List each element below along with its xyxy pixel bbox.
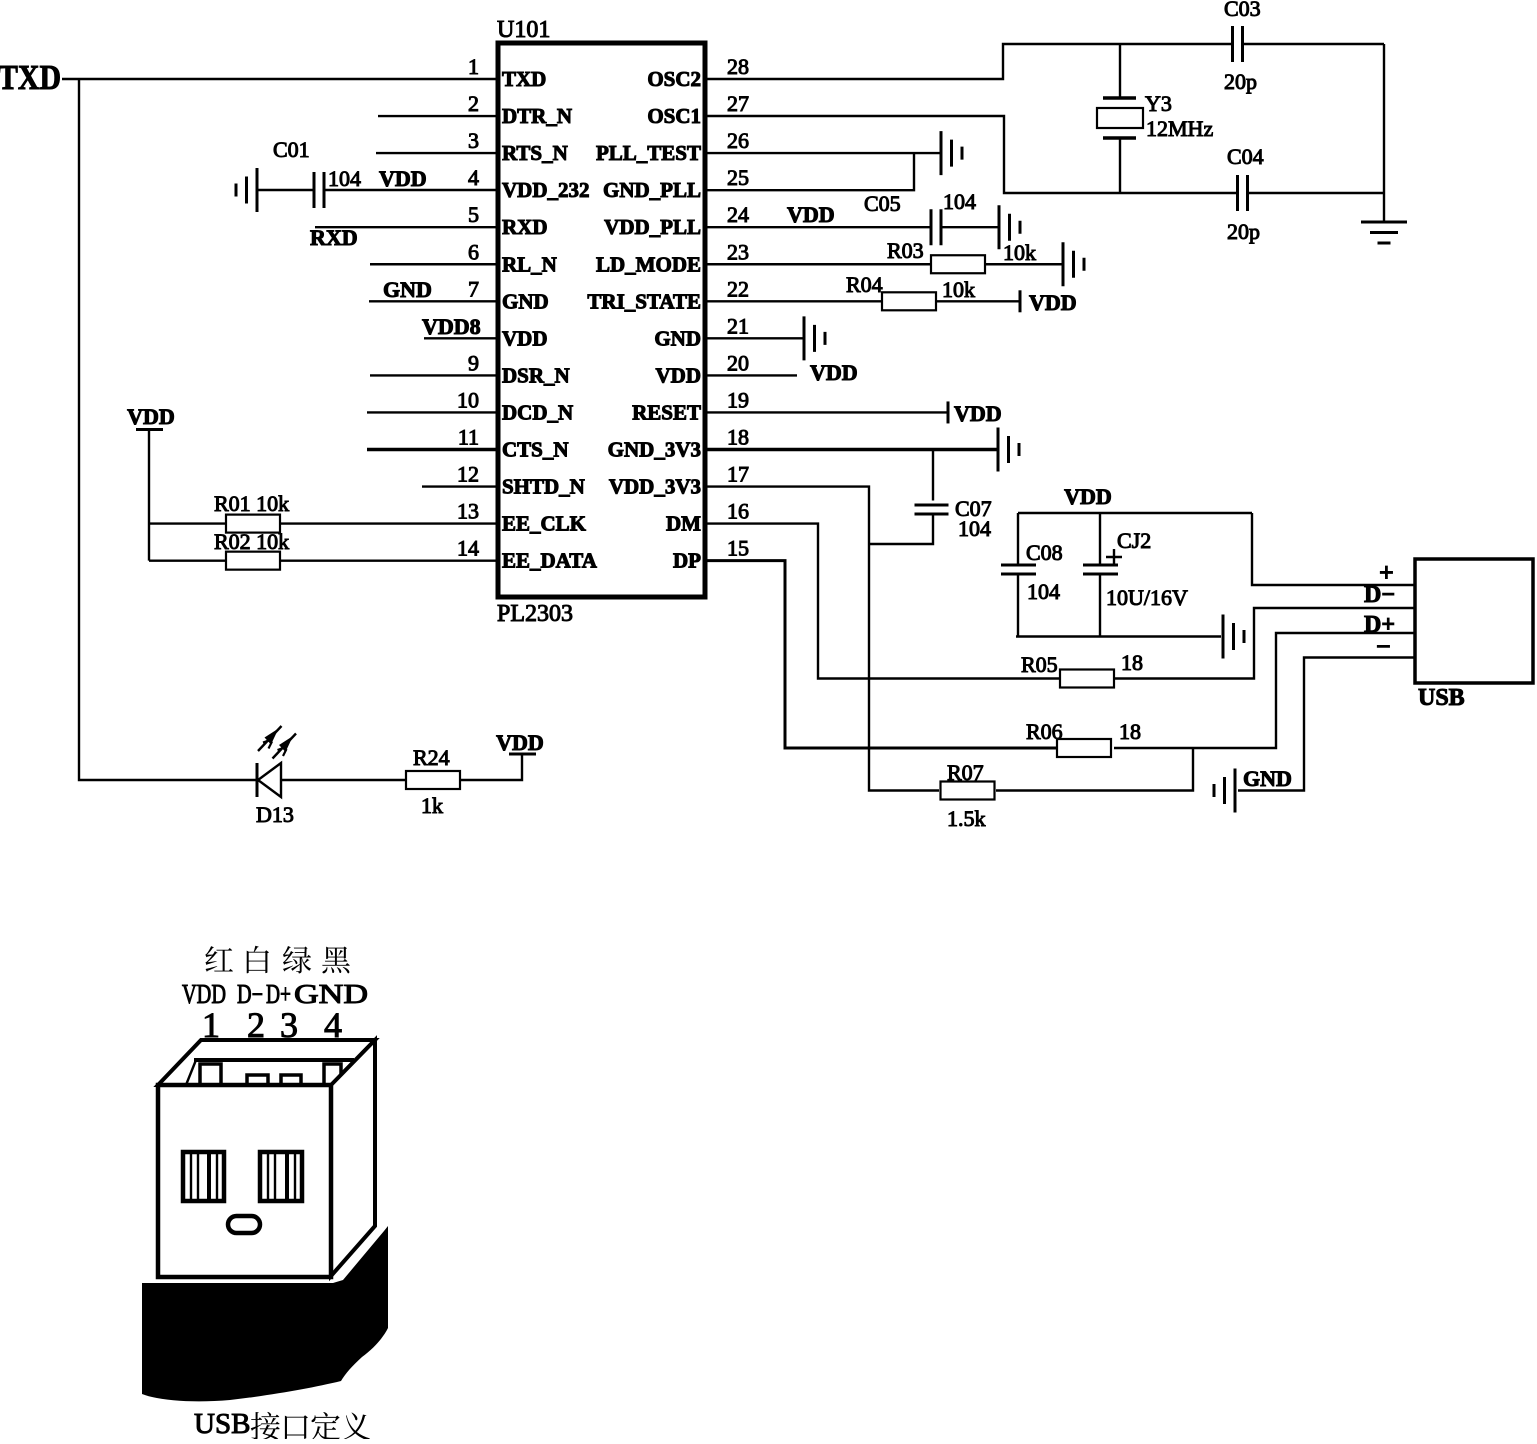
svg-text:DSR_N: DSR_N bbox=[502, 363, 570, 387]
svg-text:Y3: Y3 bbox=[1145, 91, 1172, 116]
LED D13 bbox=[256, 763, 259, 797]
wire pin 18 GND_3V3 to ground bbox=[705, 448, 998, 452]
svg-text:17: 17 bbox=[727, 462, 749, 487]
svg-text:SHTD_N: SHTD_N bbox=[502, 475, 585, 499]
svg-text:20: 20 bbox=[727, 350, 749, 375]
svg-text:104: 104 bbox=[958, 516, 991, 541]
svg-text:16: 16 bbox=[727, 499, 749, 524]
svg-text:10U/16V: 10U/16V bbox=[1106, 585, 1188, 610]
wire R04 to VDD bbox=[936, 300, 1020, 302]
svg-text:1k: 1k bbox=[421, 793, 443, 818]
wire pin 10 stub bbox=[367, 411, 498, 413]
USB pinout color caption red white green black bbox=[205, 946, 233, 972]
svg-text:U101: U101 bbox=[497, 17, 550, 43]
svg-text:GND_3V3: GND_3V3 bbox=[608, 438, 701, 462]
wire pin 19 RESET to VDD bbox=[705, 411, 948, 413]
USB plug contact 2 bbox=[247, 1075, 268, 1085]
wire C08 bottom bbox=[1017, 574, 1019, 637]
svg-text:RXD: RXD bbox=[310, 225, 358, 250]
wire pin 12 stub bbox=[422, 485, 498, 487]
wire R01 to pin 13 bbox=[280, 522, 498, 524]
wire CJ2 top bbox=[1099, 513, 1101, 565]
svg-text:OSC1: OSC1 bbox=[647, 104, 701, 128]
svg-text:R07: R07 bbox=[947, 760, 984, 785]
wire pin 5 stub bbox=[315, 226, 498, 228]
wire CJ2 bottom bbox=[1099, 574, 1101, 637]
svg-text:18: 18 bbox=[727, 425, 749, 450]
svg-text:DP: DP bbox=[673, 549, 701, 573]
svg-text:20p: 20p bbox=[1224, 69, 1257, 94]
resistor R06 bbox=[1057, 739, 1111, 757]
svg-text:RL_N: RL_N bbox=[502, 252, 557, 276]
wire bottom rail bbox=[1016, 635, 1221, 637]
wire pin 23 LD_MODE to R03 bbox=[705, 263, 931, 265]
svg-text:20p: 20p bbox=[1227, 219, 1260, 244]
svg-text:VDD: VDD bbox=[1029, 290, 1077, 315]
svg-text:CJ2: CJ2 bbox=[1117, 528, 1151, 553]
power VDD tick pin 19 bbox=[947, 401, 950, 423]
svg-text:C05: C05 bbox=[864, 191, 901, 216]
svg-text:TXD: TXD bbox=[0, 58, 61, 97]
svg-text:7: 7 bbox=[468, 276, 479, 301]
USB plug black body bbox=[142, 1226, 388, 1401]
svg-text:9: 9 bbox=[468, 350, 479, 375]
capacitor C04 bbox=[1238, 175, 1248, 211]
wire crystal right rail down bbox=[1383, 44, 1385, 222]
wire pin 8 stub bbox=[424, 337, 498, 339]
svg-text:18: 18 bbox=[1121, 650, 1143, 675]
svg-text:1.5k: 1.5k bbox=[947, 806, 986, 831]
wire VDD to R01 bbox=[149, 522, 226, 524]
svg-text:28: 28 bbox=[727, 54, 749, 79]
capacitor CJ2 polarity plus bbox=[1106, 549, 1122, 565]
wire pin 9 stub bbox=[370, 374, 498, 376]
ground C05 bbox=[999, 205, 1020, 249]
svg-text:R02 10k: R02 10k bbox=[214, 529, 289, 554]
svg-text:104: 104 bbox=[328, 166, 361, 191]
wire junction down to C07 bbox=[932, 450, 934, 501]
svg-text:26: 26 bbox=[727, 128, 749, 153]
LED D13 arrows bbox=[258, 726, 282, 751]
svg-text:VDD_PLL: VDD_PLL bbox=[604, 215, 701, 239]
wire pin 21 GND bbox=[705, 337, 804, 339]
svg-text:11: 11 bbox=[458, 425, 479, 450]
svg-text:C08: C08 bbox=[1026, 540, 1063, 565]
capacitor C05 bbox=[931, 209, 941, 245]
earth ground crystal bbox=[1361, 222, 1407, 243]
resistor R24 bbox=[406, 771, 460, 789]
svg-text:GND: GND bbox=[654, 326, 701, 350]
svg-text:1: 1 bbox=[468, 54, 479, 79]
svg-text:GND_PLL: GND_PLL bbox=[603, 178, 701, 202]
svg-text:18: 18 bbox=[1119, 719, 1141, 744]
svg-text:VDD8: VDD8 bbox=[422, 314, 481, 339]
svg-text:C04: C04 bbox=[1227, 144, 1264, 169]
wire R07 to DP net bbox=[996, 748, 1193, 791]
svg-text:USB: USB bbox=[194, 1408, 250, 1439]
wire pin 28 OSC2 to crystal top rail bbox=[705, 44, 1232, 79]
ground PLL_TEST bbox=[941, 131, 962, 175]
USB plug contact 3 bbox=[281, 1075, 301, 1085]
svg-text:25: 25 bbox=[727, 165, 749, 190]
wire C07 to VDD_3V3 net bbox=[869, 514, 933, 544]
capacitor C07 bbox=[915, 505, 949, 514]
svg-text:VDD_232: VDD_232 bbox=[502, 178, 590, 202]
wire pin 7 stub bbox=[369, 300, 498, 302]
svg-text:4: 4 bbox=[468, 165, 479, 190]
wire R03 to ground bbox=[985, 263, 1063, 265]
svg-text:VDD: VDD bbox=[502, 326, 548, 350]
resistor R01 bbox=[226, 515, 280, 533]
resistor R03 bbox=[931, 255, 985, 273]
wire USB minus to GND bbox=[1238, 658, 1415, 791]
USB plug hole bbox=[228, 1216, 260, 1233]
power VDD tick pin 22 bbox=[1019, 290, 1022, 312]
capacitor C08 bbox=[1001, 565, 1036, 574]
svg-text:VDD: VDD bbox=[656, 363, 702, 387]
wire pin 11 stub bbox=[367, 448, 498, 452]
wire pin 3 stub bbox=[376, 152, 498, 154]
USB plug contact 4 bbox=[324, 1064, 341, 1085]
wire pin 17 VDD_3V3 bbox=[705, 487, 939, 791]
wire pin 6 stub bbox=[370, 263, 498, 265]
svg-text:2: 2 bbox=[468, 91, 479, 116]
capacitor C01 bbox=[314, 172, 324, 208]
USB plug left contact window bbox=[183, 1152, 224, 1201]
ground at C01 bbox=[236, 168, 257, 212]
ground pin 21 bbox=[804, 316, 825, 360]
resistor R04 bbox=[882, 292, 936, 310]
svg-text:DM: DM bbox=[666, 512, 701, 536]
USB plug right contact window bbox=[260, 1152, 302, 1201]
wire VDD stem bbox=[148, 430, 150, 561]
wire R06 to USB D+ bbox=[1114, 633, 1415, 748]
wire VDD rail to USB plus bbox=[1252, 513, 1415, 585]
svg-text:VDD: VDD bbox=[1064, 484, 1112, 509]
ground pin 18 bbox=[998, 428, 1019, 472]
svg-text:R03: R03 bbox=[887, 238, 924, 263]
svg-text:24: 24 bbox=[727, 202, 749, 227]
capacitor C03 bbox=[1233, 26, 1243, 62]
wire R05 to USB D- bbox=[1114, 608, 1415, 679]
wire pin 24 VDD_PLL to C05 bbox=[705, 226, 931, 228]
svg-text:GND: GND bbox=[502, 289, 549, 313]
wire D13 to R24 bbox=[281, 779, 406, 781]
svg-text:GND: GND bbox=[1243, 766, 1292, 791]
wire TXD to pin 1 bbox=[62, 78, 498, 80]
svg-text:6: 6 bbox=[468, 239, 479, 264]
svg-text:10k: 10k bbox=[942, 277, 975, 302]
svg-text:CTS_N: CTS_N bbox=[502, 438, 569, 462]
USB plug slot bbox=[186, 1060, 354, 1085]
svg-text:VDD: VDD bbox=[496, 730, 544, 755]
resistor R02 bbox=[226, 552, 280, 570]
svg-text:5: 5 bbox=[468, 202, 479, 227]
USB plug contact 1 bbox=[200, 1064, 221, 1085]
ground GND near USB bbox=[1214, 769, 1235, 813]
svg-text:R05: R05 bbox=[1021, 652, 1058, 677]
wire ground to C01 bbox=[257, 189, 314, 191]
svg-text:13: 13 bbox=[457, 499, 479, 524]
resistor R05 bbox=[1060, 670, 1114, 688]
USB plug top face bbox=[158, 1040, 375, 1085]
USB connector box bbox=[1415, 559, 1533, 683]
svg-text:RESET: RESET bbox=[632, 400, 701, 424]
wire C05 to ground bbox=[941, 226, 999, 228]
power VDD symbol at R24 bbox=[509, 753, 536, 756]
svg-text:EE_DATA: EE_DATA bbox=[502, 549, 598, 573]
wire VDD to R02 bbox=[149, 559, 226, 561]
wire R24 to VDD bbox=[460, 754, 522, 780]
ground R03 bbox=[1063, 242, 1084, 286]
svg-text:EE_CLK: EE_CLK bbox=[502, 512, 587, 536]
svg-text:R01 10k: R01 10k bbox=[214, 491, 289, 516]
wire pin 26 PLL_TEST bbox=[705, 152, 941, 154]
wire VDD rail bbox=[1018, 512, 1252, 514]
svg-text:19: 19 bbox=[727, 387, 749, 412]
wire pin 22 TRI_STATE to R04 bbox=[705, 300, 882, 302]
svg-text:23: 23 bbox=[727, 239, 749, 264]
svg-text:15: 15 bbox=[727, 536, 749, 561]
wire pin 27 OSC1 to crystal bottom rail bbox=[705, 116, 1237, 193]
wire R02 to pin 14 bbox=[280, 559, 498, 561]
svg-text:VDD: VDD bbox=[787, 202, 835, 227]
svg-text:R24: R24 bbox=[413, 745, 450, 770]
svg-text:VDD: VDD bbox=[810, 360, 858, 385]
svg-text:TRI_STATE: TRI_STATE bbox=[587, 289, 701, 313]
svg-text:104: 104 bbox=[1027, 579, 1060, 604]
svg-text:TXD: TXD bbox=[502, 67, 546, 91]
svg-text:10k: 10k bbox=[1003, 240, 1036, 265]
svg-text:10: 10 bbox=[457, 387, 479, 412]
wire pin 16 DM to R05 bbox=[705, 524, 1060, 679]
svg-text:R04: R04 bbox=[846, 272, 883, 297]
svg-text:GND: GND bbox=[383, 277, 432, 302]
wire C01 to pin 4 bbox=[324, 189, 498, 191]
svg-text:VDD: VDD bbox=[379, 166, 427, 191]
svg-text:OSC2: OSC2 bbox=[647, 67, 701, 91]
svg-text:RXD: RXD bbox=[502, 215, 548, 239]
svg-text:D−: D− bbox=[1364, 582, 1395, 608]
wire pin 20 VDD bbox=[705, 374, 797, 376]
svg-text:3: 3 bbox=[468, 128, 479, 153]
wire pin 15 DP to R06 bbox=[705, 561, 1057, 748]
wire pin 25 GND_PLL bbox=[705, 153, 914, 190]
wire C08 top bbox=[1017, 513, 1019, 565]
svg-text:12MHz: 12MHz bbox=[1146, 116, 1213, 141]
svg-text:C03: C03 bbox=[1224, 0, 1261, 21]
svg-text:R06: R06 bbox=[1026, 719, 1063, 744]
svg-text:22: 22 bbox=[727, 276, 749, 301]
svg-text:104: 104 bbox=[943, 189, 976, 214]
svg-text:14: 14 bbox=[457, 536, 479, 561]
capacitor CJ2 bbox=[1083, 565, 1118, 574]
svg-text:27: 27 bbox=[727, 91, 749, 116]
svg-text:USB: USB bbox=[1418, 685, 1465, 711]
wire pin 2 stub bbox=[378, 115, 498, 117]
svg-text:VDD_3V3: VDD_3V3 bbox=[609, 475, 701, 499]
svg-text:DCD_N: DCD_N bbox=[502, 400, 573, 424]
svg-text:RTS_N: RTS_N bbox=[502, 141, 568, 165]
svg-text:C01: C01 bbox=[273, 137, 310, 162]
ground bottom rail bbox=[1223, 615, 1244, 659]
svg-text:D13: D13 bbox=[256, 802, 294, 827]
IC U101 PL2303 body bbox=[498, 43, 705, 597]
svg-text:12: 12 bbox=[457, 462, 479, 487]
USB plug front face bbox=[158, 1085, 331, 1277]
svg-text:DTR_N: DTR_N bbox=[502, 104, 572, 128]
svg-text:VDD: VDD bbox=[954, 401, 1002, 426]
svg-text:LD_MODE: LD_MODE bbox=[596, 252, 701, 276]
svg-text:PLL_TEST: PLL_TEST bbox=[596, 141, 701, 165]
svg-text:VDD: VDD bbox=[127, 404, 175, 429]
svg-text:21: 21 bbox=[727, 313, 749, 338]
wire TXD branch down to D13 bbox=[79, 79, 257, 780]
USB plug right face bbox=[331, 1040, 375, 1276]
crystal Y3 bbox=[1119, 44, 1121, 98]
svg-text:PL2303: PL2303 bbox=[497, 601, 573, 627]
resistor R07 bbox=[941, 782, 995, 800]
